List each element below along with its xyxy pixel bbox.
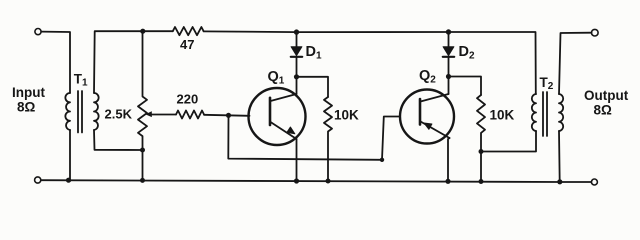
wire T1 secondary top to rail bbox=[94, 31, 173, 93]
node D1 top on rail bbox=[294, 29, 299, 34]
node Q2 emitter on rail bbox=[445, 179, 450, 184]
wire Q1 collector up bbox=[296, 77, 298, 94]
node T1 primary bottom on rail bbox=[66, 178, 71, 183]
input terminal top bbox=[35, 29, 41, 35]
output terminal top bbox=[592, 29, 599, 36]
svg-text:D2: D2 bbox=[459, 44, 475, 62]
wire T2 primary bottom to 10K node bbox=[481, 131, 536, 152]
transistor Q2 bbox=[400, 90, 454, 144]
node D2 top on rail bbox=[446, 29, 451, 34]
svg-text:Output: Output bbox=[584, 88, 629, 103]
node T1 secondary / 2.5K bottom bbox=[140, 148, 145, 153]
node 2.5K bottom on rail bbox=[140, 178, 145, 183]
wire feedback base Q1 to base Q2 bbox=[228, 115, 400, 160]
output terminal bottom bbox=[591, 179, 597, 185]
diode D1 bbox=[291, 32, 302, 77]
wire wiper to 220 bbox=[151, 114, 177, 116]
svg-text:D1: D1 bbox=[306, 44, 322, 62]
wire T1 primary bottom to rail bbox=[69, 130, 71, 181]
transistor Q1 bbox=[249, 88, 306, 145]
wire T2 secondary top to output terminal bbox=[559, 33, 592, 94]
svg-text:Q1: Q1 bbox=[268, 69, 285, 87]
node D1 bottom / Q1 collector bbox=[294, 74, 299, 79]
wire bottom rail bbox=[41, 180, 591, 182]
node 10K second bottom on rail bbox=[479, 179, 484, 184]
svg-text:2.5K: 2.5K bbox=[105, 107, 133, 122]
transformer T2 primary winding bbox=[532, 94, 536, 131]
resistor 10K first bbox=[324, 97, 332, 179]
wire input top to T1 primary bbox=[41, 32, 70, 93]
potentiometer 2.5K bbox=[138, 31, 147, 181]
input terminal bottom bbox=[35, 177, 41, 183]
svg-text:47: 47 bbox=[180, 37, 194, 52]
wire top rail D1 to D2 bbox=[297, 31, 449, 33]
wire top rail D2 to T2 primary bbox=[449, 32, 536, 94]
svg-text:220: 220 bbox=[177, 92, 199, 107]
svg-text:T1: T1 bbox=[74, 72, 88, 89]
node 10K second / T2 primary bottom bbox=[479, 149, 484, 154]
transformer T2 core bbox=[543, 92, 547, 136]
resistor 10K second bbox=[477, 95, 485, 182]
transformer T1 secondary winding bbox=[94, 93, 99, 130]
diode D2 bbox=[443, 32, 454, 77]
node Q1 base junction bbox=[226, 113, 231, 118]
node feedback corner bbox=[380, 158, 384, 162]
svg-text:Input: Input bbox=[12, 85, 45, 100]
node T2 secondary bottom on rail bbox=[557, 179, 562, 184]
svg-text:10K: 10K bbox=[490, 108, 515, 123]
wire T1 secondary bottom bbox=[94, 130, 143, 150]
svg-text:T2: T2 bbox=[540, 75, 554, 92]
svg-text:Q2: Q2 bbox=[419, 68, 436, 86]
wire 220 to Q1 base bbox=[204, 115, 250, 116]
resistor 47 bbox=[173, 27, 204, 35]
potentiometer wiper arrow bbox=[145, 111, 152, 117]
wire Q2 collector up bbox=[448, 77, 450, 95]
node Q1 emitter on rail bbox=[294, 178, 299, 183]
wire D2 node to 10K second bbox=[449, 77, 482, 96]
node 2.5K top on rail bbox=[140, 29, 145, 34]
wire Q2 emitter to rail bbox=[448, 138, 450, 181]
transformer T1 core bbox=[78, 91, 82, 133]
svg-text:8Ω: 8Ω bbox=[594, 103, 613, 118]
wire D1 node to 10K first bbox=[297, 77, 329, 97]
svg-text:10K: 10K bbox=[334, 108, 359, 123]
transformer T2 secondary winding bbox=[559, 94, 563, 131]
wire T2 secondary bottom to rail bbox=[558, 131, 561, 182]
transformer T1 primary winding bbox=[65, 93, 70, 130]
node 10K first bottom on rail bbox=[326, 179, 331, 184]
wire Q1 emitter to rail bbox=[296, 139, 298, 181]
wire top rail 47 to D1 bbox=[204, 30, 297, 33]
resistor 220 bbox=[176, 111, 204, 119]
node D2 bottom / Q2 collector bbox=[446, 74, 451, 79]
svg-text:8Ω: 8Ω bbox=[17, 100, 36, 115]
